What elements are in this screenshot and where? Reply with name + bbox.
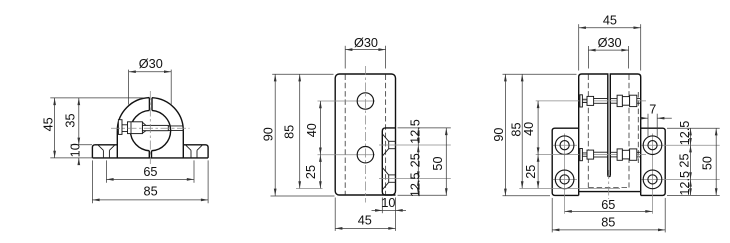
svg-text:85: 85: [601, 216, 615, 230]
svg-text:12.5: 12.5: [408, 119, 422, 144]
svg-text:90: 90: [261, 127, 275, 141]
svg-text:40: 40: [522, 122, 536, 136]
svg-text:45: 45: [41, 117, 55, 131]
svg-text:35: 35: [63, 113, 77, 127]
svg-text:12.5: 12.5: [408, 172, 422, 197]
svg-text:85: 85: [283, 125, 297, 139]
svg-text:12.5: 12.5: [678, 121, 692, 146]
svg-text:25: 25: [524, 165, 538, 179]
svg-text:50: 50: [431, 156, 445, 170]
svg-text:65: 65: [601, 198, 615, 212]
svg-text:25: 25: [408, 153, 422, 167]
svg-text:Ø30: Ø30: [598, 36, 622, 50]
svg-text:25: 25: [304, 165, 318, 179]
svg-text:40: 40: [305, 123, 319, 137]
svg-text:85: 85: [144, 184, 158, 198]
svg-text:Ø30: Ø30: [139, 57, 163, 71]
svg-text:10: 10: [381, 196, 395, 210]
svg-text:45: 45: [358, 214, 372, 228]
svg-text:65: 65: [143, 165, 157, 179]
svg-text:7: 7: [649, 102, 656, 116]
svg-text:25: 25: [677, 153, 691, 167]
svg-text:Ø30: Ø30: [354, 36, 378, 50]
svg-text:45: 45: [603, 14, 617, 28]
svg-text:12.5: 12.5: [678, 171, 692, 196]
svg-text:85: 85: [509, 122, 523, 136]
svg-text:90: 90: [492, 128, 506, 142]
svg-text:10: 10: [68, 143, 82, 157]
svg-text:50: 50: [701, 156, 715, 170]
